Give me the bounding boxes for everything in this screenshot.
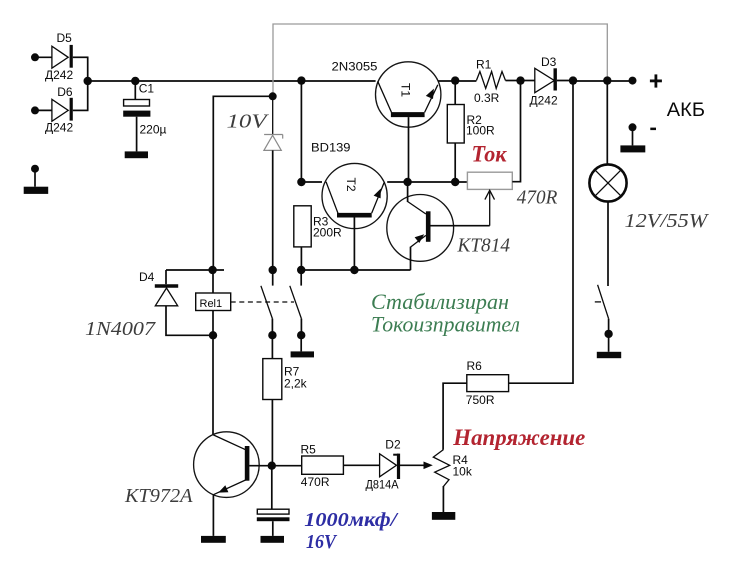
diode D6 (31, 85, 89, 134)
resistor R6 750R (443, 81, 573, 450)
wire mid rail (297, 76, 467, 186)
wire relay dashed link (231, 301, 294, 303)
svg-text:КТ972А: КТ972А (124, 485, 193, 507)
node zener top (213, 92, 276, 270)
label green title (371, 289, 520, 337)
transistor U T1 2N3055 (332, 60, 441, 182)
svg-text:220µ: 220µ (140, 122, 167, 136)
svg-text:C1: C1 (139, 82, 155, 96)
relay contact 1 (261, 270, 277, 339)
svg-text:Напряжение: Напряжение (452, 425, 585, 450)
transistor Q KT972A (124, 335, 302, 536)
diode D5 (31, 31, 89, 82)
resistor R2 100R (447, 81, 495, 182)
svg-text:R5: R5 (301, 442, 317, 456)
resistor R7 2,2k (263, 335, 308, 466)
svg-text:470R: 470R (301, 475, 330, 489)
svg-text:2N3055: 2N3055 (332, 60, 378, 74)
wire T1 emitter to R1 (438, 76, 476, 84)
svg-text:D2: D2 (385, 437, 401, 451)
svg-text:470R: 470R (517, 187, 558, 209)
zener diode 10V (227, 96, 283, 270)
potentiometer R4 10k (433, 450, 473, 512)
minus terminal (620, 123, 656, 152)
diode D4 1N4007 (85, 270, 213, 340)
ground switch (597, 352, 621, 358)
svg-text:2,2k: 2,2k (284, 377, 308, 391)
transistor Q KT814 (387, 182, 510, 270)
svg-text:КТ814: КТ814 (457, 235, 510, 257)
svg-text:R1: R1 (476, 57, 492, 71)
svg-text:Rel1: Rel1 (200, 298, 223, 310)
resistor R5 470R (301, 442, 380, 489)
potentiometer 470R (current) (467, 81, 557, 226)
wire output node (569, 76, 637, 84)
svg-text:10k: 10k (453, 465, 473, 479)
ground capacitor (261, 536, 285, 543)
relay coil Rel1 (196, 270, 231, 339)
svg-text:12V/55W: 12V/55W (625, 210, 710, 232)
wire relay rail segment left (166, 266, 224, 274)
svg-text:Д242: Д242 (45, 68, 73, 82)
label Tok (472, 142, 508, 167)
svg-text:10V: 10V (227, 110, 270, 132)
svg-text:1N4007: 1N4007 (85, 318, 156, 340)
wire main rail left (88, 80, 376, 82)
resistor R3 200R (294, 206, 342, 270)
label voltage (452, 425, 585, 450)
ground (AC centre tap) (24, 165, 49, 194)
svg-text:Д242: Д242 (530, 94, 558, 108)
svg-text:Ток: Ток (472, 142, 508, 167)
svg-text:D3: D3 (541, 55, 557, 69)
ground KT972A (201, 536, 226, 543)
zener diode D2 D814A (366, 437, 433, 491)
svg-text:750R: 750R (466, 393, 495, 407)
diode D3 (516, 55, 573, 108)
svg-text:D4: D4 (139, 270, 155, 284)
ground R4 (432, 512, 455, 520)
svg-text:1000мкф/: 1000мкф/ (304, 510, 398, 531)
svg-text:Д242: Д242 (45, 120, 73, 134)
svg-text:16V: 16V (306, 532, 338, 553)
lamp 12V/55W (589, 81, 709, 232)
switch lamp (595, 202, 613, 352)
svg-text:R6: R6 (467, 359, 483, 373)
ground contact 2 (291, 351, 314, 357)
plus terminal (650, 74, 705, 121)
resistor R1 0.3R (474, 57, 521, 105)
transistor T2 BD139 (311, 141, 387, 271)
capacitor 1000mkf (257, 466, 399, 553)
wire D5/D6 join (84, 57, 92, 110)
svg-text:BD139: BD139 (311, 141, 351, 155)
svg-text:T1: T1 (399, 83, 413, 97)
capacitor C1 (123, 77, 166, 152)
svg-text:Токоизправител: Токоизправител (371, 312, 520, 337)
svg-text:Стабилизиран: Стабилизиран (371, 289, 509, 314)
svg-text:100R: 100R (466, 123, 495, 137)
ground C1 (125, 151, 148, 158)
wire relay rail segment right (269, 266, 411, 274)
relay contact 2 (290, 270, 306, 351)
svg-text:200R: 200R (313, 226, 342, 240)
svg-text:0.3R: 0.3R (474, 91, 500, 105)
svg-text:АКБ: АКБ (667, 100, 705, 121)
svg-text:T2: T2 (344, 178, 358, 192)
svg-text:D5: D5 (57, 31, 73, 45)
svg-text:Д814А: Д814А (366, 478, 399, 492)
wire top bypass rail (273, 24, 607, 96)
svg-text:D6: D6 (57, 85, 73, 99)
